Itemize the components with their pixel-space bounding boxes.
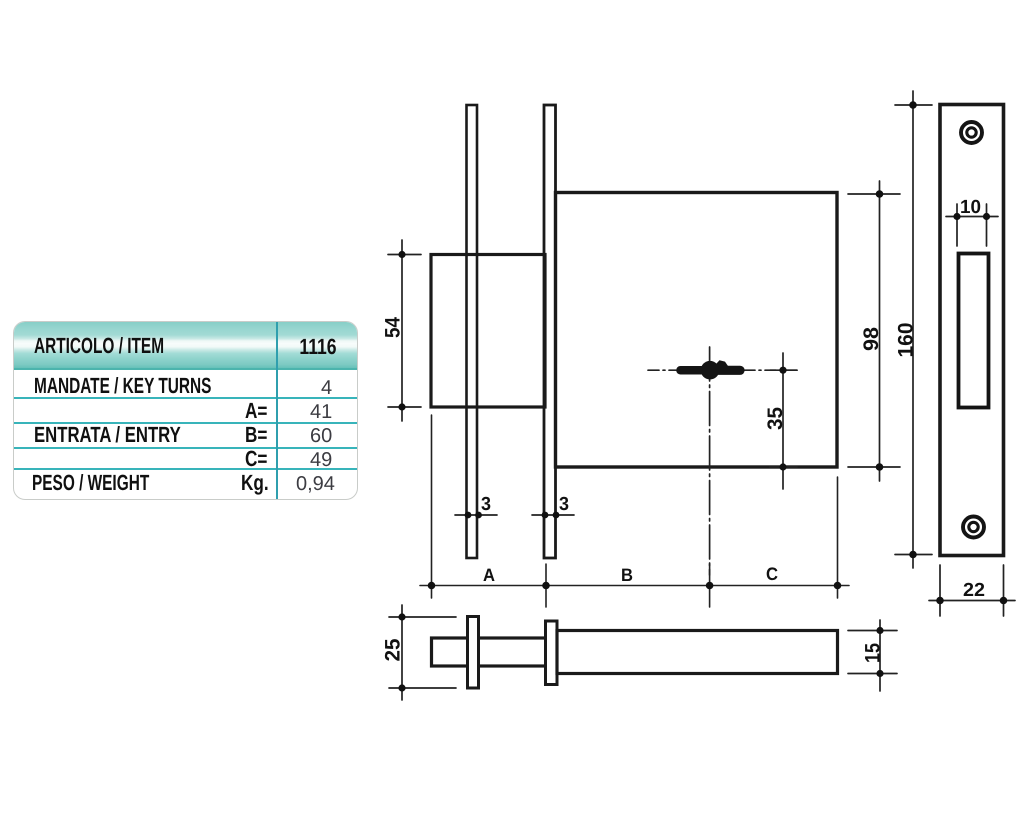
row ENTRATA / ENTRY B= 60 [34, 424, 181, 446]
table header band [14, 322, 357, 370]
dim 35 [770, 353, 797, 489]
spec table [13, 321, 358, 500]
keyhole (double-bitted key profile) [676, 360, 744, 379]
svg-text:10: 10 [960, 197, 981, 218]
strike plate [940, 105, 1004, 556]
table column separator [276, 322, 278, 499]
dim 3 (strip 1) [455, 514, 497, 516]
faceplate strip 2 (front view) [544, 105, 556, 558]
dim 160 [895, 91, 932, 568]
table row separator lines [14, 397, 357, 399]
strike plate screw hole bottom [963, 517, 984, 538]
svg-text:B: B [621, 565, 633, 585]
svg-text:25: 25 [382, 638, 405, 661]
svg-text:3: 3 [481, 494, 491, 515]
keyhole horizontal centerline [648, 369, 797, 371]
faceplate 1 (side view) [468, 617, 479, 689]
dim 22 [929, 565, 1015, 616]
svg-text:A: A [483, 565, 495, 585]
svg-text:3: 3 [559, 494, 569, 515]
lock case front box [431, 255, 545, 408]
svg-text:22: 22 [963, 580, 985, 601]
dim 25 [389, 605, 456, 700]
header value 1116 [293, 336, 343, 358]
lock body (front view) [556, 193, 838, 468]
row C= 49 [245, 448, 267, 470]
row A= 41 [245, 400, 267, 422]
row MANDATE / KEY TURNS [34, 375, 211, 397]
svg-text:98: 98 [860, 327, 883, 351]
strike plate screw hole top [961, 122, 982, 143]
dim 98 [848, 181, 900, 481]
svg-text:54: 54 [382, 317, 405, 338]
keyhole vertical centerline [709, 347, 711, 575]
faceplate strip 1 (front view) [467, 105, 478, 558]
dim 54 [388, 240, 421, 421]
dim 15 [848, 620, 897, 691]
faceplate 2 (side view) [546, 621, 558, 685]
dim A B C baseline [420, 415, 849, 607]
svg-text:35: 35 [764, 407, 787, 430]
svg-text:C: C [766, 564, 778, 584]
dim 10 [946, 204, 998, 246]
row PESO / WEIGHT Kg. 0,94 [32, 472, 149, 494]
lock body (side view) [557, 631, 838, 674]
header label ARTICOLO / ITEM [34, 335, 164, 357]
bolt (side view) [432, 638, 547, 666]
svg-text:160: 160 [895, 323, 918, 358]
strike plate slot [959, 254, 989, 408]
svg-text:15: 15 [862, 643, 885, 663]
dim 3 (strip 2) [532, 514, 574, 516]
